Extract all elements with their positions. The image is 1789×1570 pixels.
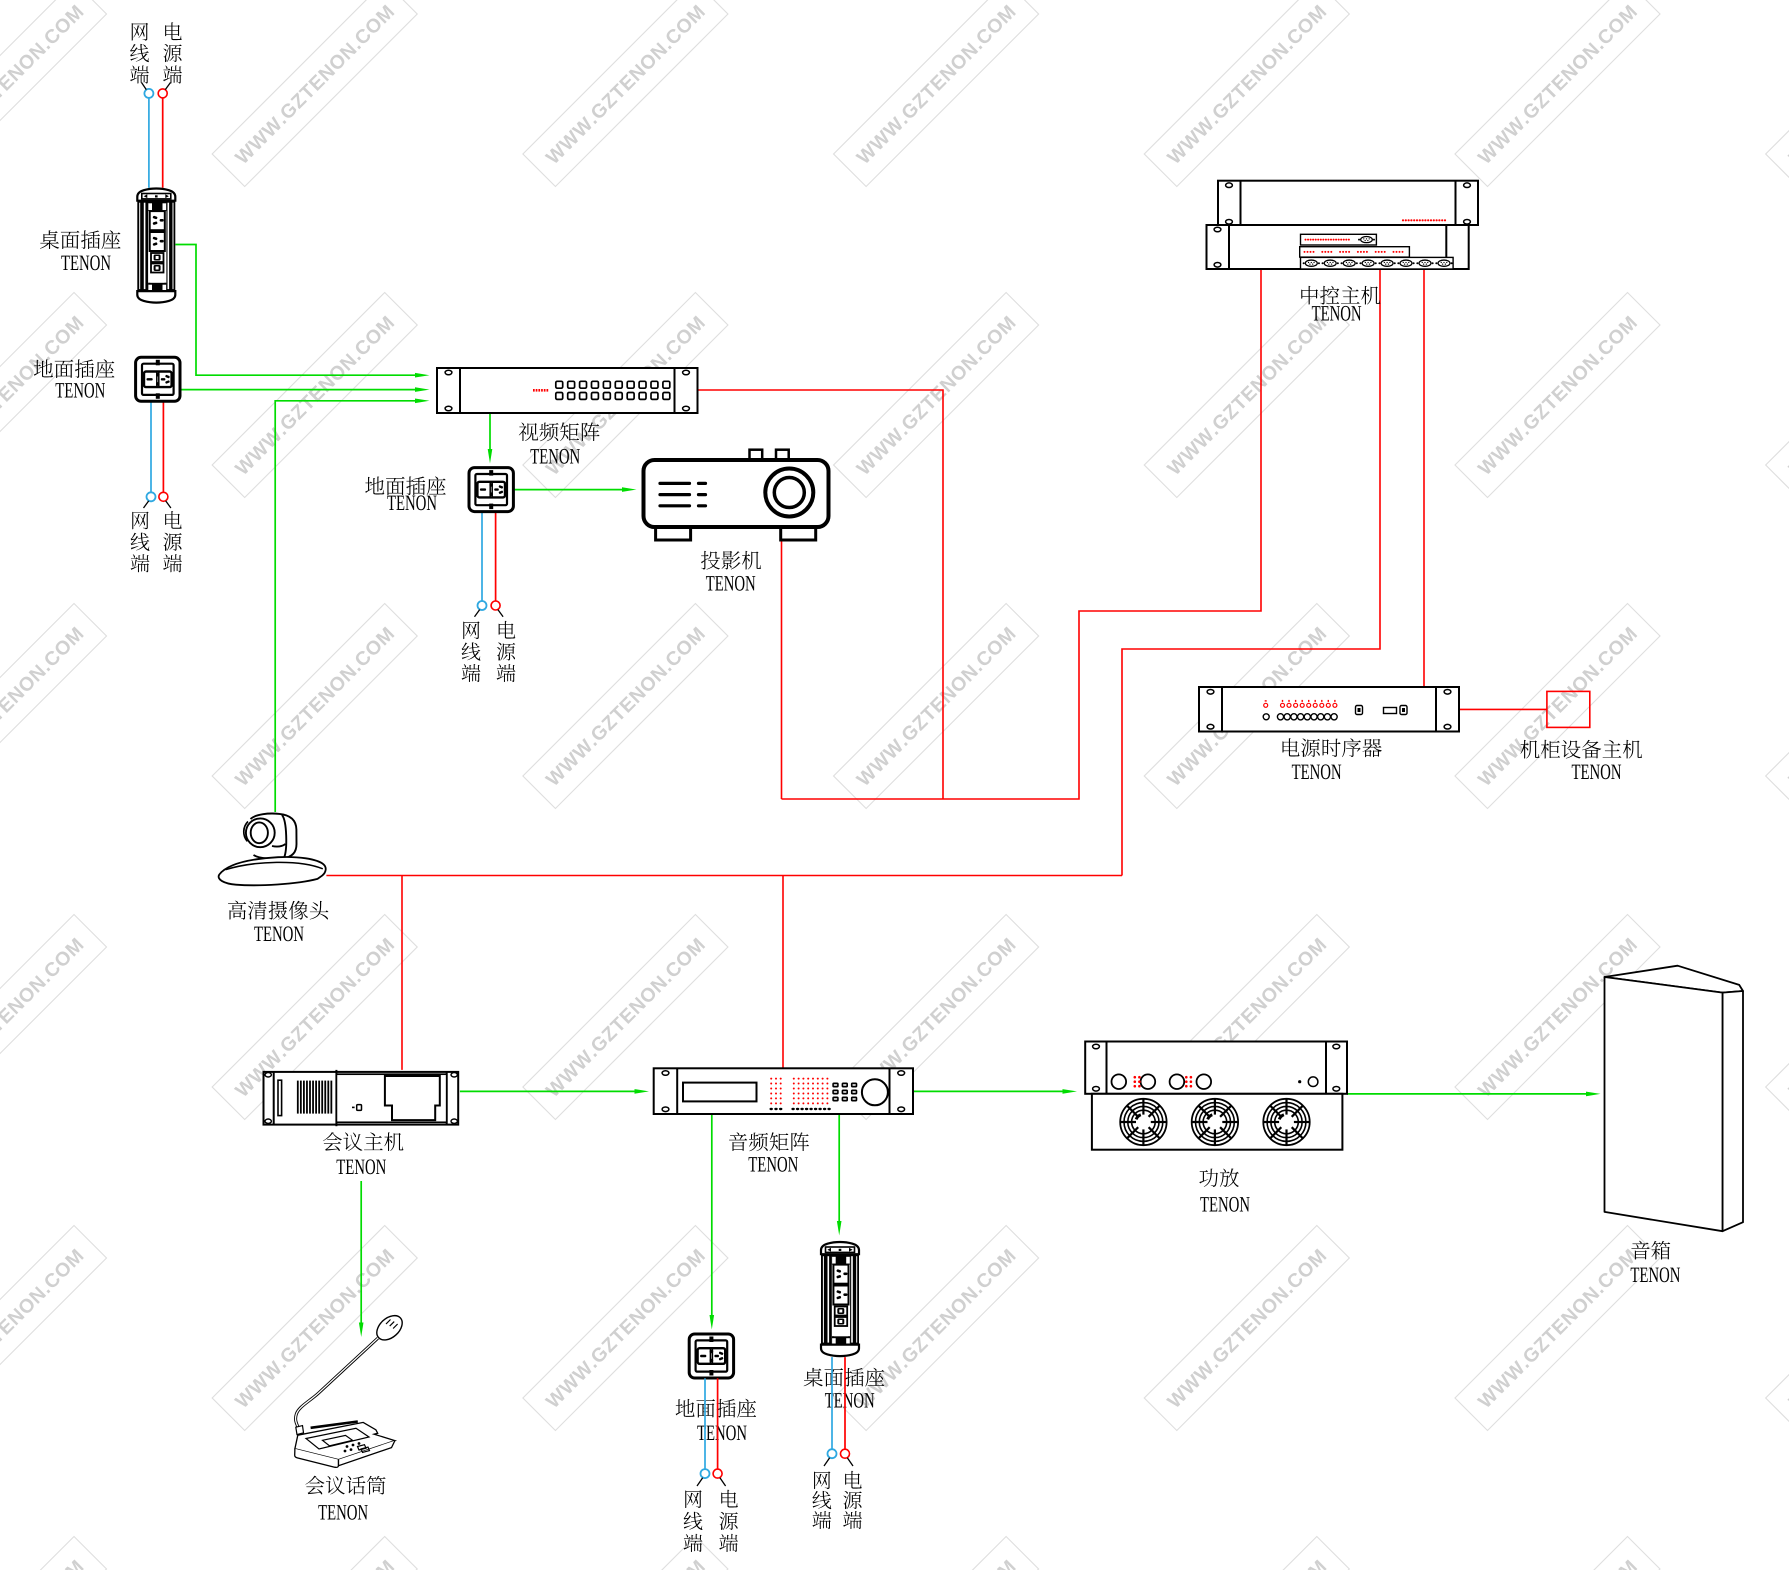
- wire red drop to conference host: [401, 876, 403, 1070]
- floor socket 1 (地面插座): [136, 357, 180, 401]
- wire net-blue desktop socket 2 bottom: [828, 1357, 837, 1458]
- wire red bus to central controller port 1: [782, 269, 1262, 799]
- wire power-red desktop socket 1 top: [158, 89, 167, 188]
- wire green audio matrix to floor socket 3: [710, 1114, 715, 1330]
- video matrix rack (视频矩阵): [437, 368, 698, 413]
- wire power-red floor socket 3 bottom: [713, 1378, 722, 1478]
- label 电源端 below floor socket 2: [497, 621, 516, 682]
- label 投影机 TENON: [701, 551, 761, 591]
- wire net-blue floor socket 1 bottom: [147, 401, 156, 502]
- central controller upper rack (中控主机): [1218, 181, 1478, 225]
- label 电源时序器 TENON: [1282, 738, 1381, 779]
- wire red bus drop to audio matrix: [782, 876, 784, 1069]
- label 音箱 TENON: [1631, 1241, 1680, 1282]
- label 网线端 below floor socket 1: [131, 512, 150, 573]
- label 网线端 below floor socket 2: [462, 621, 481, 682]
- label 电源端 below floor socket 3: [719, 1490, 738, 1552]
- wire red power sequencer to cabinet host: [1459, 708, 1547, 710]
- wire red bus to central controller port 2: [1122, 269, 1380, 876]
- label 地面插座 TENON floor socket 2: [365, 476, 446, 510]
- label 桌面插座 TENON desktop socket 2: [804, 1368, 885, 1408]
- lead lines to terminal labels below desktop socket 2: [824, 1458, 853, 1466]
- label 网线端 top-left: [130, 23, 149, 84]
- wire green camera to video matrix: [275, 399, 429, 813]
- wire green audio matrix to amplifier: [913, 1089, 1077, 1094]
- label 地面插座 TENON left: [34, 359, 115, 397]
- central controller lower rack: [1207, 225, 1469, 269]
- label 中控主机 TENON: [1301, 286, 1380, 321]
- label 地面插座 TENON floor socket 3: [676, 1399, 757, 1440]
- label 高清摄像头 TENON: [228, 901, 328, 942]
- controller sub-panel 3: [1301, 257, 1454, 269]
- label 电源端 below desktop socket 2: [843, 1471, 862, 1529]
- label 机柜设备主机 TENON: [1520, 740, 1642, 779]
- wire red projector drop to bus: [781, 541, 783, 799]
- lead lines to terminal labels top-left: [142, 83, 171, 90]
- conference host (会议主机): [264, 1070, 459, 1126]
- power sequencer (电源时序器): [1199, 687, 1459, 732]
- label 电源端 top-left: [163, 22, 182, 83]
- hd camera (高清摄像头): [219, 814, 326, 886]
- wire net-blue floor socket 3 bottom: [701, 1378, 710, 1478]
- wire red video matrix output: [698, 390, 944, 799]
- wire net-blue floor socket 2 bottom: [478, 512, 487, 610]
- projector (投影机): [644, 450, 829, 540]
- controller sub-panel 2: [1300, 247, 1410, 257]
- label 网线端 below floor socket 3: [684, 1490, 703, 1552]
- wire green floor socket 2 to projector: [512, 487, 636, 492]
- label 电源端 below floor socket 1: [163, 511, 182, 572]
- wire green conference host to audio matrix: [460, 1089, 649, 1094]
- audio matrix (音频矩阵): [654, 1068, 913, 1114]
- wire power-red floor socket 1 bottom: [159, 401, 168, 502]
- desktop socket 1 (桌面插座): [137, 189, 175, 303]
- wire green audio matrix to desktop socket 2: [837, 1114, 842, 1236]
- wire net-blue desktop socket 1 top: [144, 89, 153, 188]
- lead lines to terminal labels below floor socket 3: [697, 1478, 726, 1486]
- floor socket 3 (地面插座): [689, 1334, 733, 1378]
- wire red camera horizontal bus: [326, 875, 1122, 877]
- label 网线端 below desktop socket 2: [812, 1471, 831, 1529]
- speaker (音箱) 3d box: [1605, 966, 1744, 1231]
- wire green floor socket 1 to video matrix: [180, 387, 430, 392]
- desktop socket 2 (桌面插座): [821, 1242, 859, 1356]
- label 视频矩阵 TENON: [519, 422, 600, 463]
- controller sub-panel 1: [1301, 234, 1377, 245]
- label 桌面插座 TENON left: [40, 230, 121, 270]
- wire green amplifier to speaker: [1347, 1092, 1601, 1097]
- label 音频矩阵 TENON: [729, 1132, 809, 1171]
- lead lines to terminal labels below floor socket 2: [475, 610, 504, 617]
- wire power-red desktop socket 2 bottom: [841, 1357, 850, 1458]
- floor socket 2 (地面插座): [469, 468, 513, 512]
- wire green conference host to microphone: [359, 1181, 364, 1337]
- wire power-red floor socket 2 bottom: [491, 512, 500, 610]
- label 功放 TENON: [1199, 1168, 1249, 1211]
- microphone (会议话筒): [295, 1311, 407, 1468]
- lead lines to terminal labels below floor socket 1: [144, 501, 171, 508]
- label 会议话筒 TENON: [305, 1476, 385, 1520]
- wire green video matrix to floor socket 2: [488, 413, 493, 464]
- wire red central controller to power sequencer: [1423, 269, 1425, 687]
- label 会议主机 TENON: [323, 1132, 404, 1174]
- amplifier (功放): [1085, 1042, 1347, 1150]
- cabinet equipment host (机柜设备主机) red box: [1547, 691, 1590, 727]
- wire green desktop socket 1 to video matrix: [175, 245, 429, 378]
